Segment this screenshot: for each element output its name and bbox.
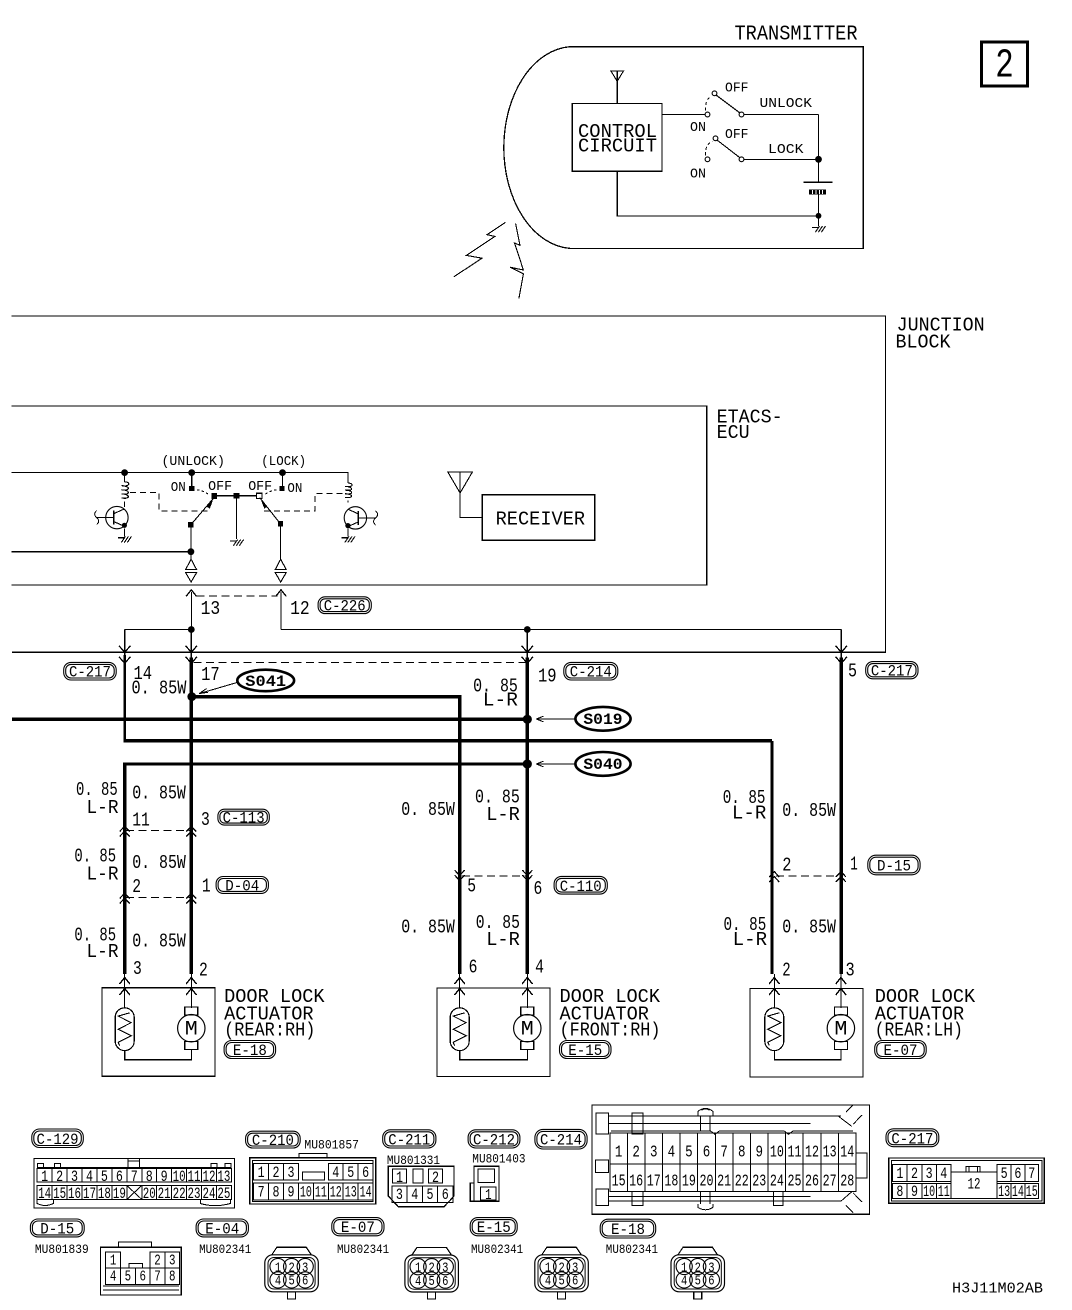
svg-text:28: 28: [840, 1172, 854, 1191]
svg-text:OFF: OFF: [725, 127, 749, 143]
connector symbol pin12 (triangles): [275, 559, 286, 582]
svg-text:0. 85W: 0. 85W: [132, 852, 186, 874]
svg-text:MU801839: MU801839: [35, 1242, 89, 1257]
svg-text:2: 2: [154, 1252, 161, 1269]
unlock switch SW1: [705, 91, 744, 117]
svg-text:0. 85W: 0. 85W: [132, 678, 187, 700]
contact center common (square): [234, 493, 240, 499]
dashed throw arc unlock: [197, 490, 208, 494]
ETACS-ECU label: [717, 407, 783, 444]
contact arm top lock (open square): [257, 493, 262, 498]
svg-text:26: 26: [805, 1172, 819, 1191]
svg-text:6: 6: [708, 1274, 714, 1290]
svg-text:C-129: C-129: [37, 1131, 79, 1149]
crossing arrows junction block bottom x841: [836, 646, 848, 653]
svg-text:6: 6: [362, 1164, 369, 1182]
svg-text:14: 14: [1012, 1183, 1024, 1201]
dashed link coil L2 to lock arm: [264, 493, 343, 511]
svg-text:12: 12: [968, 1176, 981, 1194]
svg-text:13: 13: [217, 1168, 230, 1186]
Q2 emitter wire to ground: [347, 528, 349, 536]
svg-text:5: 5: [429, 1274, 435, 1290]
wire S041 branch to front actuator: [192, 697, 460, 974]
crossing arrows junction block bottom x191: [186, 646, 198, 653]
svg-text:C-226: C-226: [324, 598, 366, 616]
svg-text:25: 25: [787, 1172, 801, 1191]
svg-text:9: 9: [287, 1183, 294, 1201]
svg-text:21: 21: [158, 1185, 171, 1203]
svg-text:S041: S041: [245, 673, 286, 691]
lock switch SW2: [705, 136, 744, 162]
svg-text:5: 5: [1001, 1165, 1008, 1183]
svg-text:3: 3: [201, 809, 210, 831]
svg-text:M: M: [834, 1019, 847, 1042]
svg-text:E-07: E-07: [883, 1042, 917, 1060]
connector label D-04: [216, 877, 268, 894]
wire S019 feed from page left: [12, 718, 527, 721]
svg-text:17: 17: [647, 1172, 661, 1191]
svg-text:4: 4: [411, 1186, 418, 1204]
svg-text:C-211: C-211: [388, 1131, 430, 1149]
connector label C-211: [383, 1130, 436, 1148]
svg-text:MU801403: MU801403: [472, 1152, 525, 1167]
svg-text:7: 7: [1028, 1165, 1035, 1183]
svg-text:4: 4: [86, 1168, 93, 1186]
node rail junction left coil: [121, 469, 128, 476]
pin 12 arrow: [276, 590, 286, 630]
svg-text:L-R: L-R: [483, 690, 518, 712]
inline connector C-113: [120, 826, 197, 836]
svg-text:21: 21: [717, 1172, 731, 1191]
svg-text:15: 15: [1026, 1183, 1038, 1201]
svg-text:6: 6: [703, 1144, 711, 1163]
svg-text:9: 9: [161, 1168, 168, 1186]
svg-text:18: 18: [98, 1185, 111, 1203]
svg-text:2: 2: [911, 1165, 918, 1183]
svg-text:4: 4: [535, 956, 544, 978]
svg-text:M: M: [521, 1019, 534, 1042]
wire pin17 bus: [190, 658, 193, 975]
svg-text:C-217: C-217: [69, 664, 111, 682]
svg-text:11: 11: [315, 1183, 327, 1201]
svg-text:18: 18: [664, 1172, 678, 1191]
label 0.85 L-R mid 2: [476, 912, 520, 951]
wire pin12 run: [281, 629, 841, 631]
svg-text:C-217: C-217: [891, 1130, 933, 1148]
svg-text:ON: ON: [171, 480, 186, 496]
svg-text:3: 3: [169, 1252, 176, 1269]
transistor Q2: [344, 507, 377, 529]
svg-text:1: 1: [615, 1144, 623, 1163]
svg-text:0. 85W: 0. 85W: [401, 799, 455, 821]
svg-text:(REAR:RH): (REAR:RH): [224, 1019, 315, 1041]
svg-text:TRANSMITTER: TRANSMITTER: [735, 24, 858, 47]
inline connector C-110: [455, 870, 533, 880]
svg-text:14: 14: [360, 1183, 372, 1201]
svg-text:1: 1: [110, 1252, 117, 1269]
transmitter antenna: [611, 71, 624, 104]
svg-text:23: 23: [752, 1172, 766, 1191]
svg-text:RECEIVER: RECEIVER: [496, 509, 585, 531]
svg-text:8: 8: [738, 1144, 746, 1163]
wire control to unlock switch: [662, 114, 705, 116]
connector label D-15 bottom: [30, 1219, 84, 1237]
svg-text:2: 2: [995, 44, 1014, 90]
svg-text:13: 13: [345, 1183, 357, 1201]
wire pin19 bus: [526, 658, 529, 975]
dashed throw arc lock: [266, 490, 277, 494]
inline connector D-04: [120, 893, 197, 903]
svg-text:4: 4: [415, 1274, 421, 1290]
connector drawing C-217: [889, 1158, 1045, 1203]
transmitter outline: [504, 47, 863, 249]
wire pin14 drop: [124, 630, 126, 659]
connector label C-129: [32, 1129, 84, 1148]
svg-text:OFF: OFF: [725, 81, 749, 97]
transistor Q1: [95, 506, 128, 528]
control circuit U1: [572, 104, 662, 172]
node S041: [187, 692, 196, 701]
svg-text:M: M: [185, 1019, 198, 1042]
svg-text:11: 11: [188, 1168, 201, 1186]
connector drawing C-129: [34, 1159, 235, 1208]
svg-text:C-214: C-214: [570, 664, 612, 682]
svg-text:LOCK: LOCK: [768, 142, 804, 158]
connector label C-217 right: [866, 662, 918, 679]
connector label C-110: [554, 876, 607, 894]
svg-text:(LOCK): (LOCK): [261, 454, 306, 470]
svg-text:11: 11: [132, 810, 150, 832]
ground Q2: [341, 537, 347, 539]
node S019: [523, 715, 532, 724]
svg-text:L-R: L-R: [732, 802, 766, 824]
svg-text:2: 2: [273, 1164, 280, 1182]
svg-text:5: 5: [427, 1186, 434, 1204]
svg-text:5: 5: [125, 1269, 132, 1286]
wire pin14 thin: [124, 655, 126, 740]
receiver antenna: [448, 472, 483, 518]
svg-text:19: 19: [538, 666, 557, 688]
svg-text:6: 6: [469, 956, 478, 978]
svg-text:5: 5: [288, 1274, 294, 1290]
svg-text:6: 6: [302, 1274, 308, 1290]
ETACS-ECU box: [12, 406, 707, 585]
svg-text:16: 16: [629, 1172, 643, 1191]
contact ON lock (square): [279, 486, 284, 491]
svg-text:3: 3: [133, 958, 142, 980]
svg-text:3: 3: [287, 1164, 294, 1182]
wire pin5 drop: [840, 630, 842, 659]
wire lock ON stub: [282, 473, 284, 486]
svg-text:4: 4: [110, 1269, 117, 1286]
actuator label E-15: [560, 986, 661, 1041]
svg-text:15: 15: [53, 1185, 66, 1203]
svg-text:3: 3: [71, 1168, 78, 1186]
svg-text:25: 25: [217, 1185, 230, 1203]
svg-text:ON: ON: [287, 481, 302, 497]
svg-text:12: 12: [330, 1183, 342, 1201]
actuator label E-07: [875, 986, 976, 1041]
inline connector D-15: [769, 872, 846, 882]
svg-text:7: 7: [131, 1168, 138, 1186]
svg-text:19: 19: [113, 1185, 126, 1203]
svg-text:MU802341: MU802341: [337, 1242, 389, 1257]
connector label E-18: [224, 1041, 276, 1059]
svg-text:E-18: E-18: [233, 1042, 267, 1060]
svg-text:19: 19: [682, 1172, 696, 1191]
radio wave zigzag left: [454, 222, 523, 298]
connector label C-212: [468, 1130, 520, 1148]
svg-text:MU801857: MU801857: [304, 1138, 359, 1153]
svg-text:13: 13: [998, 1183, 1010, 1201]
svg-text:6: 6: [442, 1274, 448, 1290]
svg-text:H3J11M02AB: H3J11M02AB: [952, 1280, 1043, 1297]
svg-text:6: 6: [139, 1269, 146, 1286]
svg-text:12: 12: [805, 1144, 819, 1163]
svg-text:13: 13: [823, 1144, 837, 1163]
svg-text:13: 13: [201, 598, 221, 620]
svg-text:8: 8: [896, 1183, 903, 1201]
svg-text:5: 5: [558, 1274, 564, 1290]
entry arrows: [455, 974, 533, 1008]
crossing arrows junction block bottom x124: [119, 646, 131, 653]
svg-text:C-110: C-110: [560, 878, 602, 896]
svg-text:22: 22: [173, 1185, 186, 1203]
svg-text:L-R: L-R: [733, 929, 768, 951]
svg-text:10: 10: [770, 1144, 784, 1163]
connector label E-04: [196, 1219, 248, 1237]
motor M: [834, 1007, 847, 1015]
svg-text:CIRCUIT: CIRCUIT: [578, 136, 657, 158]
relay coil L2 lock: [345, 483, 352, 502]
junction ground bus: [816, 213, 822, 219]
battery B1: [804, 182, 833, 194]
svg-text:6: 6: [442, 1186, 449, 1204]
svg-text:1: 1: [202, 875, 211, 897]
svg-text:MU802341: MU802341: [471, 1242, 523, 1257]
svg-text:10: 10: [300, 1183, 312, 1201]
svg-text:6: 6: [572, 1274, 578, 1290]
svg-text:S040: S040: [583, 756, 622, 774]
lock arm: [260, 498, 281, 524]
svg-text:ON: ON: [690, 166, 706, 182]
wire lock pivot down: [280, 527, 282, 560]
dashed link coil L1 to unlock arm: [130, 493, 210, 511]
solenoid resistor: [115, 1008, 134, 1051]
entry arrows: [120, 974, 197, 1008]
svg-text:2: 2: [56, 1168, 63, 1186]
internal wire: [774, 1049, 841, 1059]
wire pin13 branch: [125, 629, 192, 631]
splice S041 label: [199, 670, 294, 694]
svg-text:5: 5: [467, 875, 476, 897]
svg-text:9: 9: [911, 1183, 918, 1201]
receiver box: [482, 495, 595, 540]
relay common bar: [214, 495, 260, 497]
wire left rail 2: [12, 551, 191, 553]
page number box 2: [982, 42, 1028, 90]
svg-text:5: 5: [848, 661, 857, 683]
svg-text:L-R: L-R: [87, 863, 119, 885]
svg-text:D-15: D-15: [877, 858, 911, 876]
svg-text:15: 15: [612, 1172, 626, 1191]
node pin19: [524, 626, 531, 633]
internal wire: [460, 1049, 528, 1059]
connector label D-15: [868, 855, 920, 875]
svg-text:14: 14: [840, 1144, 854, 1163]
connector drawing C-211: [388, 1166, 454, 1207]
svg-text:L-R: L-R: [87, 941, 119, 963]
wire control circuit bottom: [617, 171, 818, 216]
svg-text:L-R: L-R: [87, 797, 119, 819]
motor M: [185, 1007, 198, 1015]
svg-text:3: 3: [650, 1144, 658, 1163]
connector drawing C-210: [250, 1154, 376, 1204]
label 0.85 L-R left 1: [76, 779, 119, 819]
connector label C-113: [218, 809, 269, 825]
connector label E-18 bottom: [600, 1219, 656, 1238]
connector drawing E-04: [265, 1247, 319, 1299]
svg-text:4: 4: [545, 1274, 551, 1290]
svg-text:27: 27: [823, 1172, 837, 1191]
svg-text:16: 16: [68, 1185, 81, 1203]
svg-text:4: 4: [940, 1165, 947, 1183]
wire label 0.85 L-R pin19: [473, 675, 518, 711]
svg-text:24: 24: [202, 1185, 215, 1203]
svg-text:ON: ON: [690, 120, 706, 136]
entry arrows: [769, 974, 846, 1008]
contact arm top unlock (square): [212, 493, 218, 499]
svg-text:4: 4: [668, 1144, 676, 1163]
svg-text:9: 9: [756, 1144, 764, 1163]
solenoid resistor: [450, 1008, 469, 1051]
connector label E-07: [875, 1041, 927, 1059]
node pin13 split: [188, 626, 195, 633]
wire rear LH pin2 drop: [770, 741, 773, 974]
splice S040 label: [536, 752, 631, 776]
svg-text:11: 11: [938, 1183, 950, 1201]
svg-text:0. 85W: 0. 85W: [132, 782, 186, 804]
svg-text:E-07: E-07: [341, 1219, 375, 1237]
connector label E-15: [560, 1041, 612, 1059]
node rail junction unlock: [188, 469, 195, 476]
svg-text:(FRONT:RH): (FRONT:RH): [560, 1019, 661, 1041]
ground Q1: [118, 537, 124, 539]
wire unlock pivot down: [190, 527, 192, 560]
wire battery to ground bus: [818, 195, 820, 216]
connector drawing E-18: [671, 1247, 725, 1299]
connector symbol pin13 (triangles): [186, 559, 197, 582]
connector label C-214: [535, 1129, 587, 1149]
svg-text:0. 85W: 0. 85W: [401, 916, 455, 938]
crossing arrows junction block bottom x527: [522, 646, 534, 653]
svg-text:20: 20: [143, 1185, 156, 1203]
label 0.85 L-R right 2: [724, 914, 768, 951]
internal wire: [125, 1049, 192, 1059]
connector label C-226: [318, 597, 371, 614]
unlock arm pivot node: [188, 522, 193, 527]
svg-text:E-15: E-15: [477, 1219, 511, 1237]
wire top rail: [12, 473, 348, 483]
actuator label E-18: [224, 986, 325, 1041]
svg-text:(REAR:LH): (REAR:LH): [875, 1019, 963, 1041]
svg-text:4: 4: [681, 1274, 687, 1290]
svg-text:12: 12: [202, 1168, 215, 1186]
svg-text:0. 85W: 0. 85W: [782, 800, 836, 822]
svg-text:1: 1: [258, 1164, 265, 1182]
svg-text:C-212: C-212: [473, 1131, 515, 1149]
wire unlock bus vertical: [818, 115, 820, 183]
label 0.85 L-R left 2: [74, 846, 118, 886]
door lock actuator box E-07: [750, 989, 863, 1078]
svg-text:10: 10: [173, 1168, 186, 1186]
svg-text:UNLOCK: UNLOCK: [760, 96, 813, 112]
svg-text:12: 12: [290, 598, 310, 620]
svg-text:7: 7: [154, 1269, 161, 1286]
svg-text:4: 4: [332, 1164, 339, 1182]
svg-text:E-15: E-15: [568, 1042, 602, 1060]
svg-text:E-18: E-18: [611, 1221, 645, 1239]
node rail junction lock: [279, 469, 286, 476]
connector drawing D-15: [101, 1242, 182, 1295]
svg-text:22: 22: [735, 1172, 749, 1191]
wire pin19 drop: [526, 630, 528, 659]
svg-text:6: 6: [534, 878, 543, 900]
svg-text:1: 1: [396, 1169, 403, 1187]
svg-text:10: 10: [923, 1183, 935, 1201]
svg-text:2: 2: [432, 1169, 439, 1187]
svg-text:0. 85W: 0. 85W: [782, 917, 836, 939]
wire S040 branch to rear RH: [125, 764, 528, 974]
solenoid resistor: [765, 1008, 784, 1051]
svg-text:6: 6: [1014, 1165, 1021, 1183]
svg-text:C-210: C-210: [252, 1132, 294, 1150]
wire unlock ON stub: [191, 473, 193, 486]
dashed connector line C-226: [196, 595, 277, 597]
connector drawing E-15: [535, 1247, 589, 1299]
svg-text:8: 8: [169, 1269, 176, 1286]
wire lock to bus: [744, 158, 819, 160]
svg-text:11: 11: [787, 1144, 801, 1163]
svg-text:20: 20: [700, 1172, 714, 1191]
door lock actuator box E-18: [102, 988, 215, 1076]
svg-text:6: 6: [116, 1168, 123, 1186]
svg-text:MU802341: MU802341: [199, 1242, 251, 1257]
connector label E-15 bottom: [470, 1218, 517, 1236]
svg-text:ECU: ECU: [717, 422, 750, 444]
svg-text:7: 7: [720, 1144, 728, 1163]
svg-text:3: 3: [926, 1165, 933, 1183]
svg-text:2: 2: [199, 960, 208, 982]
svg-text:L-R: L-R: [486, 929, 520, 951]
svg-text:2: 2: [632, 1144, 640, 1163]
pin 13 arrow: [186, 590, 196, 630]
node S040: [523, 759, 532, 768]
connector label C-217 left: [64, 662, 116, 680]
wire common to ground: [236, 499, 238, 539]
label 0.85 L-R mid 1: [475, 786, 520, 826]
svg-text:D-04: D-04: [225, 878, 259, 896]
svg-text:17: 17: [83, 1185, 96, 1203]
ground relay common: [230, 540, 236, 542]
svg-text:2: 2: [782, 959, 790, 981]
svg-text:1: 1: [41, 1168, 48, 1186]
wire pin14 to rear LH run: [124, 739, 772, 742]
svg-text:BLOCK: BLOCK: [896, 331, 952, 353]
Q1 emitter wire to ground: [123, 528, 125, 536]
svg-text:24: 24: [770, 1172, 784, 1191]
node rail2: [188, 548, 195, 555]
